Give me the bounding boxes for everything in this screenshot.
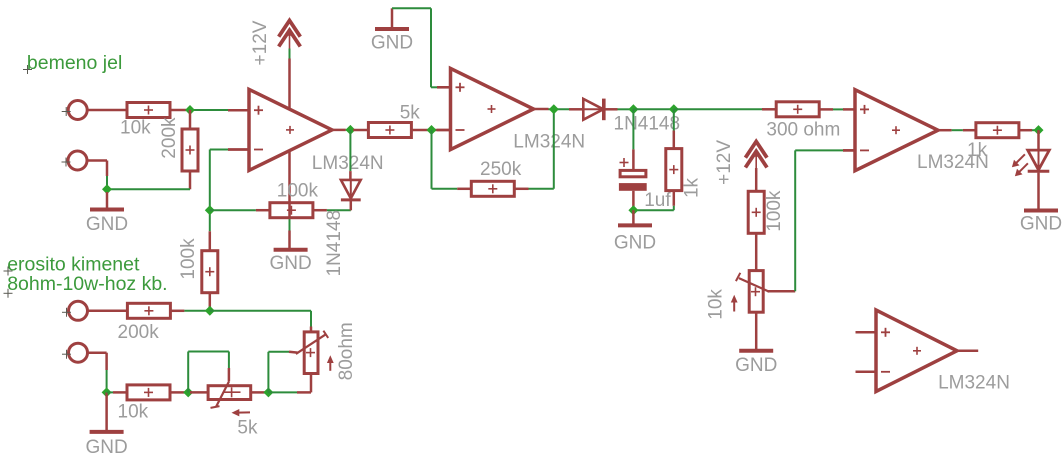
wire R100k to pot [755, 233, 758, 270]
pot 10k wiper wire [768, 290, 796, 293]
wire R10k to node K [170, 391, 188, 394]
wire -in to node B [210, 150, 228, 232]
wire PAD1 to R 10k [88, 109, 127, 112]
node A junction [185, 105, 195, 115]
wire U1A V- to GND [288, 150, 291, 249]
ground GND6 [85, 392, 127, 458]
svg-text:100k: 100k [764, 190, 785, 232]
resistor 10k (sense) [127, 385, 170, 400]
value 10k (pot) [705, 289, 726, 320]
connector PAD3 [62, 301, 88, 320]
svg-text:bemeno jel: bemeno jel [27, 52, 122, 74]
svg-text:GND: GND [371, 33, 413, 54]
+12V supply P2 [745, 142, 767, 171]
wire node F to R 300ohm [674, 108, 776, 110]
wire R1k to LED [1018, 129, 1039, 132]
wire U1B out [549, 108, 570, 110]
connector PAD2 [62, 151, 88, 170]
value 1k (output) [967, 140, 988, 161]
connector PAD4 [62, 343, 88, 362]
pin U1B +in [437, 86, 451, 89]
wire U1A -in [228, 148, 249, 151]
op-amp U1D [856, 310, 979, 392]
wire D2 to detector [618, 108, 634, 110]
wire +12V to R 100k [755, 168, 758, 191]
pin U1C -in [843, 149, 855, 152]
value 1N4148 (D1) [324, 210, 345, 277]
svg-text:8ohm-10w-hoz kb.: 8ohm-10w-hoz kb. [7, 273, 167, 295]
node I junction [205, 306, 215, 316]
pin R250k left [457, 188, 471, 191]
svg-text:1k: 1k [967, 140, 988, 161]
potentiometer 5k [208, 381, 251, 408]
svg-text:5k: 5k [400, 102, 421, 123]
svg-text:1N4148: 1N4148 [614, 114, 681, 135]
node D junction [549, 104, 559, 114]
pot 80ohm wiper wire [268, 352, 297, 393]
wire GND node to 200k [107, 188, 190, 190]
value 5k [400, 102, 421, 123]
wire feedback down [432, 130, 458, 189]
svg-text:GND: GND [269, 253, 311, 274]
wire node K to pot 5k [190, 391, 208, 394]
wire node I to pot 80ohm [210, 311, 311, 332]
svg-text:+12V: +12V [714, 140, 735, 185]
wire wiper to U1C -in [795, 150, 843, 291]
resistor 1k (vertical) [666, 109, 682, 210]
svg-text:GND: GND [1020, 214, 1062, 235]
value 5k (pot) [237, 418, 258, 439]
svg-text:80ohm: 80ohm [336, 322, 357, 380]
svg-text:1uf: 1uf [644, 190, 671, 211]
wire PAD3 to R 200k [88, 310, 127, 313]
node GND junction [102, 184, 112, 194]
net label: erosito kimenet [4, 253, 141, 275]
wire node E to node F [633, 108, 673, 110]
resistor 5k [368, 123, 411, 138]
potentiometer 80ohm [296, 331, 328, 374]
value 1N4148 (D2) [614, 114, 681, 135]
node G junction [628, 205, 638, 215]
svg-text:erosito kimenet: erosito kimenet [7, 253, 140, 275]
led LED1 arrows [1012, 154, 1028, 176]
diode D1 1N4148 (vertical) [341, 180, 361, 210]
node E junction [628, 104, 638, 114]
wire R200k to node I [170, 310, 209, 313]
value 10k (sense) [118, 401, 149, 422]
wire node E to C1 [632, 109, 634, 170]
value 300 ohm [766, 119, 840, 140]
ground GND1 [86, 192, 128, 235]
wire R250k to out [514, 109, 554, 189]
svg-text:LM324N: LM324N [513, 132, 585, 153]
resistor 1k (output) [976, 123, 1019, 138]
net label: 8ohm-10w-hoz kb. [4, 273, 168, 298]
pot 10k arrow [731, 295, 738, 312]
svg-text:5k: 5k [237, 418, 258, 439]
op-amp U1A [228, 89, 346, 170]
resistor 300 ohm [776, 102, 819, 117]
wire R5k to U1B -in [413, 129, 451, 132]
wire out to D1 [349, 130, 351, 180]
svg-text:GND: GND [86, 214, 128, 235]
node H junction [1034, 125, 1044, 135]
wire node J to R 10k [107, 391, 127, 393]
value 1uf [644, 190, 671, 211]
wire PAD4 to node J [88, 353, 107, 393]
svg-text:10k: 10k [120, 117, 151, 138]
svg-text:100k: 100k [178, 238, 199, 280]
resistor 10k (input) [127, 103, 170, 118]
ground GND2 (top) [371, 8, 413, 53]
label LM324N (U1D) [938, 373, 1010, 394]
wire PAD2 to GND node [88, 161, 108, 190]
svg-text:200k: 200k [159, 117, 180, 159]
capacitor C1 1uf (polarized) [619, 158, 647, 210]
svg-text:250k: 250k [480, 159, 522, 180]
node C junction [427, 125, 437, 135]
value 250k [480, 159, 522, 180]
wire node B to R 100k [210, 209, 270, 211]
pot 5k arrow [232, 409, 251, 416]
+12V supply P1 [279, 21, 301, 50]
pot 5k wiper wire [188, 352, 229, 393]
wire +12V to U1A V+ [289, 49, 291, 110]
value 10k [120, 117, 151, 138]
net label: bemeno jel [23, 52, 122, 74]
svg-text:GND: GND [85, 437, 127, 458]
svg-text:300 ohm: 300 ohm [766, 119, 840, 140]
value 200k [159, 117, 180, 159]
node K junction [183, 387, 193, 397]
op-amp U1C [843, 90, 952, 171]
node U1A out junction [345, 125, 355, 135]
label LM324N (U1B) [513, 132, 585, 153]
resistor 100k (threshold) [748, 191, 764, 233]
svg-text:1N4148: 1N4148 [324, 210, 345, 277]
led LED1 [1028, 130, 1050, 210]
op-amp U1B [437, 68, 549, 149]
pin U1A +in [228, 109, 249, 112]
svg-text:LM324N: LM324N [312, 153, 384, 174]
wire R10k to node A [170, 109, 228, 112]
resistor 100k (feedback) [270, 203, 313, 218]
svg-text:200k: 200k [118, 322, 160, 343]
resistor 250k [471, 181, 514, 196]
label LM324N (U1C) [917, 152, 989, 173]
wire U1C out to R 1k [952, 129, 977, 131]
value 100k (threshold) [764, 190, 785, 232]
value 100k (feedback) [277, 181, 319, 202]
ground GND5 (LED) [1020, 211, 1062, 235]
svg-text:GND: GND [614, 233, 656, 254]
node B junction [205, 205, 215, 215]
svg-text:+12V: +12V [250, 20, 271, 65]
svg-text:LM324N: LM324N [938, 373, 1010, 394]
resistor 200k (sense) [127, 303, 170, 318]
wire R1k to C1 [633, 209, 673, 211]
node J junction [102, 387, 112, 397]
value 1k (vertical) [682, 177, 703, 198]
connector PAD1 [62, 101, 87, 120]
value 100k (divider) [178, 238, 199, 280]
wire GND2 to U1B +in [392, 8, 437, 87]
ground GND3 (detector) [614, 210, 656, 253]
resistor 100k (divider) [202, 231, 218, 310]
wire R100k to D1 [313, 209, 351, 212]
label LM324N (U1A) [312, 153, 384, 174]
svg-text:10k: 10k [705, 289, 726, 320]
wire R300 to U1C +in [819, 108, 844, 111]
ground GND4 (pot) [735, 312, 777, 376]
node L junction [263, 387, 273, 397]
svg-text:10k: 10k [118, 401, 149, 422]
node F junction [669, 104, 679, 114]
potentiometer 10k [736, 271, 769, 313]
wire node L to pot 80ohm bottom [268, 374, 311, 393]
svg-text:GND: GND [735, 355, 777, 376]
resistor 200k (vertical) [182, 110, 198, 189]
wire pot 5k to node L [251, 391, 269, 394]
svg-text:1k: 1k [682, 177, 703, 198]
pot 80ohm arrow [327, 355, 334, 371]
wire out to R 5k [353, 129, 367, 132]
value +12V (P1) [250, 20, 271, 65]
value 200k (sense) [118, 322, 160, 343]
ground GND7 (U1A) [269, 250, 311, 274]
value +12V (P2) [714, 140, 735, 185]
value 80ohm [336, 322, 357, 380]
diode D2 1N4148 [569, 99, 618, 121]
svg-text:100k: 100k [277, 181, 319, 202]
